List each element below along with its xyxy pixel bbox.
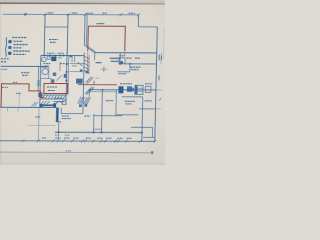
dimension extension garage (37, 107, 40, 140)
entry area (40, 104, 54, 106)
bath cluster left-center (42, 57, 46, 61)
center hall walls (83, 53, 84, 114)
center double wall (83, 15, 86, 45)
legend top-left (5, 37, 6, 57)
kitchen cluster (119, 53, 121, 64)
hall hatch marks below (32, 101, 50, 107)
top dimension line (3, 13, 140, 16)
wall y55.5 (41, 54, 84, 56)
kitchen counters/fixtures (118, 86, 123, 93)
diagonal to main wall (84, 45, 95, 53)
dark box right of hall (76, 79, 83, 84)
bedroom1 walls (43, 15, 46, 56)
dining / rear rooms (89, 89, 156, 91)
garage front wall (0, 106, 56, 108)
dimension ticks top (25, 13, 140, 16)
bottom wall (55, 131, 142, 133)
bottom dimension line (0, 140, 155, 143)
top right step (137, 15, 139, 26)
wall y63.5 (120, 63, 157, 65)
garage top wall (1, 65, 48, 67)
top red addition box (88, 26, 126, 51)
scribble lower-left (1, 59, 9, 62)
main upper wall (95, 52, 157, 54)
lower sheet edge line (0, 151, 153, 154)
house left wall (40, 55, 41, 107)
long red line (78, 84, 117, 86)
BED RM text (49, 39, 58, 42)
stairs hatch (84, 56, 89, 73)
closet hatch band (40, 94, 66, 96)
right side dimension marks (160, 53, 162, 64)
paper background (0, 0, 165, 165)
dim text blobs top (48, 12, 135, 15)
left photo edge shading (0, 0, 1, 165)
text in red box (47, 87, 57, 91)
GAR text (21, 73, 30, 76)
right border (155, 27, 158, 141)
dining text (125, 100, 135, 102)
central wall (66, 52, 67, 105)
top strip above photo edge (0, 0, 169, 3)
extra room label rows (84, 101, 151, 117)
paper below sheet edge (0, 153, 165, 165)
master bed area marks (94, 53, 96, 61)
garage red outline (1, 84, 45, 107)
bottom right steps (131, 126, 153, 128)
dark photo/page top edge (0, 2, 169, 4)
middle red box (44, 83, 68, 93)
closet verticals (71, 56, 73, 62)
